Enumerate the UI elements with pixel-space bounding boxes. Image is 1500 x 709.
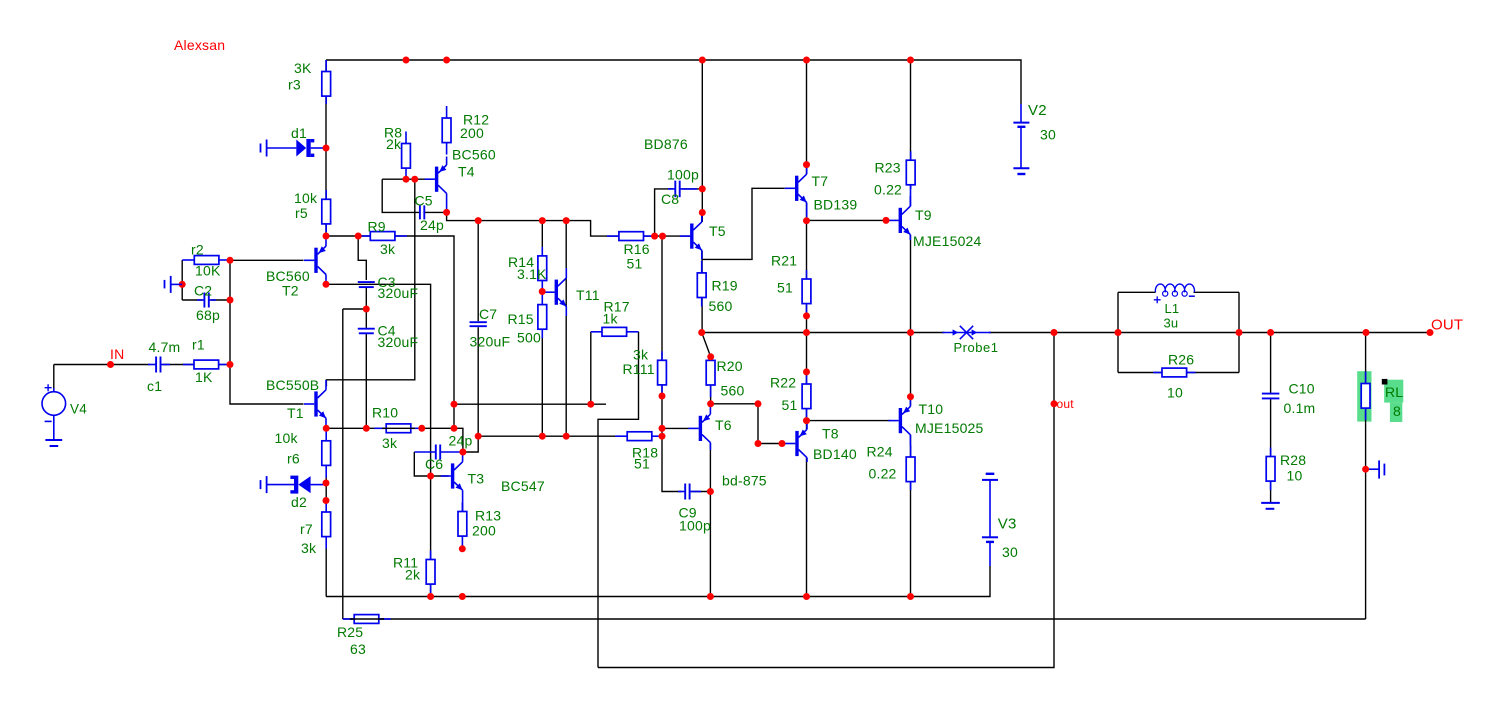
label r7 [300, 521, 313, 537]
svg-text:d2: d2 [291, 494, 307, 510]
transistor T6 BD875 [688, 404, 710, 450]
label R15 value [517, 330, 541, 346]
label R8 [384, 125, 402, 141]
resistor R9 [358, 232, 407, 241]
node y220 T11 [563, 217, 570, 224]
svg-text:V2: V2 [1028, 102, 1047, 119]
node T4 base [411, 176, 418, 183]
wire C3-C4 [365, 288, 367, 329]
label R11 [393, 555, 418, 571]
svg-text:24p: 24p [449, 433, 473, 449]
node R16 right a [651, 233, 658, 240]
capacitor C7 [470, 322, 487, 326]
wire R20 chain [710, 357, 712, 404]
wire C9 right [691, 491, 710, 493]
label BD876 [644, 136, 688, 152]
resistor R15 [538, 293, 547, 339]
inductor L1 [1154, 284, 1195, 303]
svg-text:T2: T2 [282, 283, 299, 299]
wire C2 left [182, 299, 202, 301]
node rail T7 [803, 57, 810, 64]
junction IN [107, 361, 114, 368]
wire top rail [326, 60, 1021, 104]
label R13 value [472, 523, 496, 539]
node C5 right [443, 209, 450, 216]
label R17 [604, 299, 630, 315]
transistor T4 BC560 [425, 157, 447, 213]
label T4 type [452, 147, 496, 163]
label RL value [1393, 403, 1401, 419]
wire T2 base [230, 259, 304, 261]
transistor T7 BD139 [785, 165, 807, 221]
node R10 right [418, 425, 425, 432]
node rail R12 [443, 57, 450, 64]
node RL top [1363, 329, 1370, 336]
label C8 value [667, 167, 699, 183]
label R22 value [782, 397, 798, 413]
svg-text:V3: V3 [998, 516, 1017, 533]
svg-text:100p: 100p [679, 518, 711, 534]
wire T8 collector [806, 458, 808, 597]
node T8 link a [755, 400, 762, 407]
label T9 type [913, 233, 982, 249]
svg-text:200: 200 [460, 125, 484, 141]
resistor R21 [802, 270, 811, 313]
label C2 value [196, 307, 220, 323]
wire R17 left [590, 332, 592, 404]
wire r2 loop [181, 260, 183, 300]
label R12 [463, 112, 489, 128]
terminal C2 [165, 276, 183, 293]
label T1 type [266, 377, 319, 393]
label T5 [709, 223, 726, 239]
resistor R8 [402, 132, 411, 180]
resistor R14 [538, 247, 547, 292]
resistor R6 [322, 429, 331, 478]
wire R26 row [1118, 372, 1162, 374]
wire C6 box [414, 452, 448, 476]
svg-text:C7: C7 [479, 306, 497, 322]
wire T5 emitter [701, 250, 703, 332]
resistor R23 [906, 151, 915, 189]
wire C7 top [477, 221, 479, 322]
wire C3 jog [358, 237, 366, 280]
node T6 base a [659, 425, 666, 432]
label R25 value [350, 641, 366, 657]
label C5 value [420, 217, 444, 233]
svg-text:R24: R24 [867, 444, 893, 460]
wire T10 emitter [910, 333, 912, 407]
terminal RL [1366, 460, 1385, 478]
wire r1-node [218, 364, 230, 366]
label r1 value [195, 369, 213, 385]
svg-text:51: 51 [777, 280, 793, 296]
node gnd T8 [803, 593, 810, 600]
resistor R111 [658, 351, 667, 396]
wire R18 right [650, 435, 662, 437]
label C10 [1289, 381, 1315, 397]
svg-text:200: 200 [472, 523, 496, 539]
node T6 base b [659, 433, 666, 440]
label r7 value [301, 540, 317, 556]
label T2 [282, 283, 299, 299]
label T9 [915, 207, 932, 223]
label R20 value [721, 383, 745, 399]
svg-text:24p: 24p [420, 217, 444, 233]
capacitor C8 [668, 181, 697, 198]
label R24 value [869, 466, 897, 482]
svg-text:BD139: BD139 [814, 197, 858, 213]
svg-text:T6: T6 [715, 417, 732, 433]
label R19 value [709, 298, 733, 314]
junction C2 terminal [179, 281, 186, 288]
svg-text:10: 10 [1167, 385, 1183, 401]
label r3 [288, 77, 301, 93]
wire R14-R15 chain [541, 221, 543, 437]
node rail R8 [403, 57, 410, 64]
node T8 base [779, 440, 786, 447]
wire y428 [326, 428, 463, 452]
source V4 [42, 384, 66, 440]
label r6 [287, 451, 300, 467]
label R26 value [1167, 385, 1183, 401]
svg-text:51: 51 [634, 456, 650, 472]
resistor R10 [374, 424, 422, 433]
svg-text:0.22: 0.22 [869, 466, 897, 482]
node R13 bottom [459, 545, 466, 552]
label R11 value [405, 567, 421, 583]
node L1 right [1236, 329, 1243, 336]
svg-text:T10: T10 [919, 401, 944, 417]
svg-text:3u: 3u [1164, 316, 1179, 331]
node C3-C4 [363, 306, 370, 313]
node y428 x454 [451, 425, 458, 432]
svg-text:MJE15024: MJE15024 [913, 233, 982, 249]
svg-text:0.22: 0.22 [874, 182, 902, 198]
label r5 [295, 205, 308, 221]
svg-text:1K: 1K [195, 369, 213, 385]
wire T11 chain [565, 221, 567, 437]
svg-text:r6: r6 [287, 451, 300, 467]
label T11 [576, 287, 600, 303]
node rail out T9 [907, 329, 914, 336]
probe Probe1 [942, 326, 991, 339]
node T7 collector [803, 161, 810, 168]
label V2 value [1040, 127, 1056, 143]
wire R17 right [598, 332, 639, 668]
svg-text:R26: R26 [1168, 352, 1194, 368]
svg-text:r5: r5 [295, 205, 308, 221]
node R9 left [355, 233, 362, 240]
node R22 bottom [803, 417, 810, 424]
label V3 [998, 516, 1017, 533]
node gnd R13 [459, 593, 466, 600]
label R15 [508, 311, 534, 327]
label r3 value [294, 60, 312, 76]
label d1 [291, 125, 307, 141]
svg-text:T8: T8 [822, 426, 839, 442]
battery V2 [1013, 104, 1029, 174]
label C6 [425, 456, 443, 472]
label T4 [458, 164, 475, 180]
svg-text:R25: R25 [337, 624, 363, 640]
label C6 value [449, 433, 473, 449]
svg-text:100p: 100p [667, 167, 699, 183]
svg-text:560: 560 [709, 298, 733, 314]
svg-text:3k: 3k [382, 435, 398, 451]
wire L1 top left [1118, 291, 1156, 293]
svg-text:4.7m: 4.7m [149, 339, 181, 355]
label R21 [771, 253, 797, 269]
node y436 R15 [539, 433, 546, 440]
resistor R20 [706, 357, 715, 397]
label R28 [1280, 452, 1306, 468]
resistor R5 [322, 190, 331, 232]
wire node B [343, 308, 367, 310]
wire node A vertical [230, 260, 304, 404]
transistor T3 BC547 [441, 452, 463, 512]
node R20 bottom [707, 400, 714, 407]
label R24 [867, 444, 893, 460]
node out node [1051, 329, 1058, 336]
label r6 value [275, 430, 299, 446]
svg-text:320uF: 320uF [378, 285, 419, 301]
node R8 bottom [403, 176, 410, 183]
wire R9 line [326, 235, 371, 237]
svg-text:T1: T1 [287, 405, 304, 421]
resistor R12 [442, 106, 451, 155]
wire V4 top [53, 365, 55, 393]
capacitor c1 [148, 357, 170, 373]
label C7 [479, 306, 497, 322]
svg-text:3k: 3k [380, 241, 396, 257]
svg-text:10k: 10k [275, 430, 299, 446]
label net OUT [1431, 316, 1463, 333]
label R10 [372, 405, 398, 421]
label c1 [147, 378, 162, 394]
wire T9 base [807, 219, 889, 221]
svg-text:1k: 1k [603, 311, 619, 327]
svg-text:C8: C8 [661, 191, 679, 207]
wire T7 collector [806, 60, 808, 174]
label V4 [70, 401, 87, 416]
svg-text:R28: R28 [1280, 452, 1306, 468]
label RL [1385, 384, 1403, 400]
svg-text:d1: d1 [291, 125, 307, 141]
label net IN [110, 346, 124, 362]
wire R26 right [1187, 372, 1239, 374]
label R25 [337, 624, 363, 640]
svg-text:T4: T4 [458, 164, 475, 180]
wire NFB y619 [343, 618, 1366, 620]
capacitor C2 [197, 293, 216, 308]
zener diode d1 [261, 139, 327, 157]
node T5 collector [699, 209, 706, 216]
resistor R13 [458, 503, 467, 549]
svg-text:63: 63 [350, 641, 366, 657]
label R14 [508, 254, 534, 270]
label C5 [415, 193, 433, 209]
svg-text:L1: L1 [1165, 301, 1180, 316]
node y436 T11 [563, 433, 570, 440]
node rail out R19 [698, 329, 705, 336]
svg-text:3.1K: 3.1K [517, 266, 547, 282]
label r5 value [294, 190, 318, 206]
resistor R26 [1153, 368, 1196, 377]
svg-text:MJE15025: MJE15025 [915, 420, 984, 436]
node OUT end [1427, 329, 1434, 336]
wire IN [54, 364, 150, 366]
svg-text:bd-875: bd-875 [722, 473, 767, 489]
svg-text:320uF: 320uF [378, 334, 419, 350]
transistor T2 BC560 [304, 236, 326, 284]
svg-text:10K: 10K [195, 263, 221, 279]
label d2 [291, 494, 307, 510]
wire C8 right [682, 188, 702, 190]
resistor R18 [615, 432, 662, 441]
label R18 value [634, 456, 650, 472]
junction r7 pin [323, 497, 330, 504]
label R111 [623, 361, 655, 377]
wire T1 collector up [326, 179, 414, 386]
wire T7 emitter chain [806, 203, 808, 430]
wire C10-R28 [1270, 399, 1272, 457]
svg-text:R21: R21 [771, 253, 797, 269]
transistor T11 [544, 268, 566, 316]
svg-text:R15: R15 [508, 311, 534, 327]
node R20 top [707, 353, 714, 360]
label R23 value [874, 182, 902, 198]
label R17 value [603, 311, 619, 327]
node y220 C7 [475, 217, 482, 224]
label C10 value [1284, 400, 1316, 416]
label T10 [919, 401, 944, 417]
label R9 [368, 219, 386, 235]
label R9 value [380, 241, 396, 257]
svg-text:0.1m: 0.1m [1284, 400, 1316, 416]
wire out rail left [701, 332, 945, 334]
svg-text:V4: V4 [70, 401, 87, 416]
wire r3-r5 chain [325, 60, 327, 236]
node T7 emitter [803, 217, 810, 224]
wire C5 right [425, 211, 447, 213]
svg-text:IN: IN [110, 346, 124, 362]
node y220 R14 [539, 217, 546, 224]
svg-text:10k: 10k [294, 190, 318, 206]
resistor R19 [697, 261, 706, 307]
wire L1 top right [1194, 291, 1240, 293]
highlight RL [1357, 371, 1403, 422]
transistor T10 MJE15025 [888, 397, 910, 445]
label R18 [632, 445, 658, 461]
node y404 R17 [587, 401, 594, 408]
node C8 right [699, 185, 706, 192]
svg-text:R9: R9 [368, 219, 386, 235]
svg-text:c1: c1 [147, 378, 162, 394]
svg-text:320uF: 320uF [470, 334, 511, 350]
label title [174, 37, 225, 53]
wire T6 collector [709, 443, 711, 597]
label net out [1057, 397, 1075, 411]
resistor R11 [426, 551, 435, 594]
node R16 right b [659, 233, 666, 240]
wire through R10 [382, 427, 415, 429]
label Probe1 [954, 340, 999, 355]
wire R16 right [644, 235, 691, 237]
wire T10 collector [910, 435, 912, 597]
label R12 value [460, 125, 484, 141]
svg-text:3k: 3k [301, 540, 317, 556]
wire y436 [478, 435, 627, 437]
svg-text:RL: RL [1385, 384, 1403, 400]
node R111 bottom [659, 393, 666, 400]
resistor R3 [322, 60, 331, 104]
svg-text:out: out [1057, 397, 1075, 411]
svg-text:R19: R19 [712, 278, 738, 294]
label T3 type [501, 478, 545, 494]
svg-text:C5: C5 [415, 193, 433, 209]
svg-text:C6: C6 [425, 456, 443, 472]
wire C5 box [382, 179, 419, 212]
wire T9 emitter [910, 235, 912, 333]
label r1 [192, 337, 205, 353]
resistor R25 [343, 615, 391, 624]
wire C4 bottom [365, 334, 367, 429]
svg-text:Alexsan: Alexsan [174, 37, 225, 53]
label T8 type [813, 446, 857, 462]
label R8 value [386, 136, 402, 152]
node rail T5 [699, 57, 706, 64]
node R21 bottom [803, 312, 810, 319]
svg-text:BC547: BC547 [501, 478, 545, 494]
node y436 C7 [475, 433, 482, 440]
resistor R2 [182, 256, 230, 265]
wire R23 top [910, 60, 912, 161]
label R111 value [633, 347, 649, 363]
wire feedback bottom [598, 333, 1054, 668]
svg-text:C2: C2 [194, 283, 212, 299]
label V2 [1028, 102, 1047, 119]
resistor R28 [1266, 448, 1275, 491]
svg-text:T5: T5 [709, 223, 726, 239]
svg-text:BD140: BD140 [813, 446, 857, 462]
svg-text:R22: R22 [770, 375, 796, 391]
wire T6 base [662, 427, 689, 429]
svg-text:T9: T9 [915, 207, 932, 223]
label R21 value [777, 280, 793, 296]
svg-text:r3: r3 [288, 77, 301, 93]
wire R20-T8 link [711, 404, 786, 444]
svg-text:r1: r1 [192, 337, 205, 353]
label C8 [661, 191, 679, 207]
label R23 [875, 160, 901, 176]
svg-text:BC560: BC560 [452, 147, 496, 163]
ground R28 [1261, 503, 1280, 509]
wire through R25 [350, 618, 384, 620]
label C2 [194, 283, 212, 299]
wire RL chain [1365, 333, 1367, 620]
node T1 emitter [323, 425, 330, 432]
label C7 value [470, 334, 511, 350]
label r2 [191, 242, 204, 258]
wire out rail right [989, 332, 1430, 334]
node C10 top [1267, 329, 1274, 336]
transistor T9 MJE15024 [888, 196, 910, 240]
svg-text:BD876: BD876 [644, 136, 688, 152]
label C3 [378, 274, 396, 290]
svg-text:R111: R111 [623, 361, 655, 377]
svg-text:BC550B: BC550B [266, 377, 319, 393]
